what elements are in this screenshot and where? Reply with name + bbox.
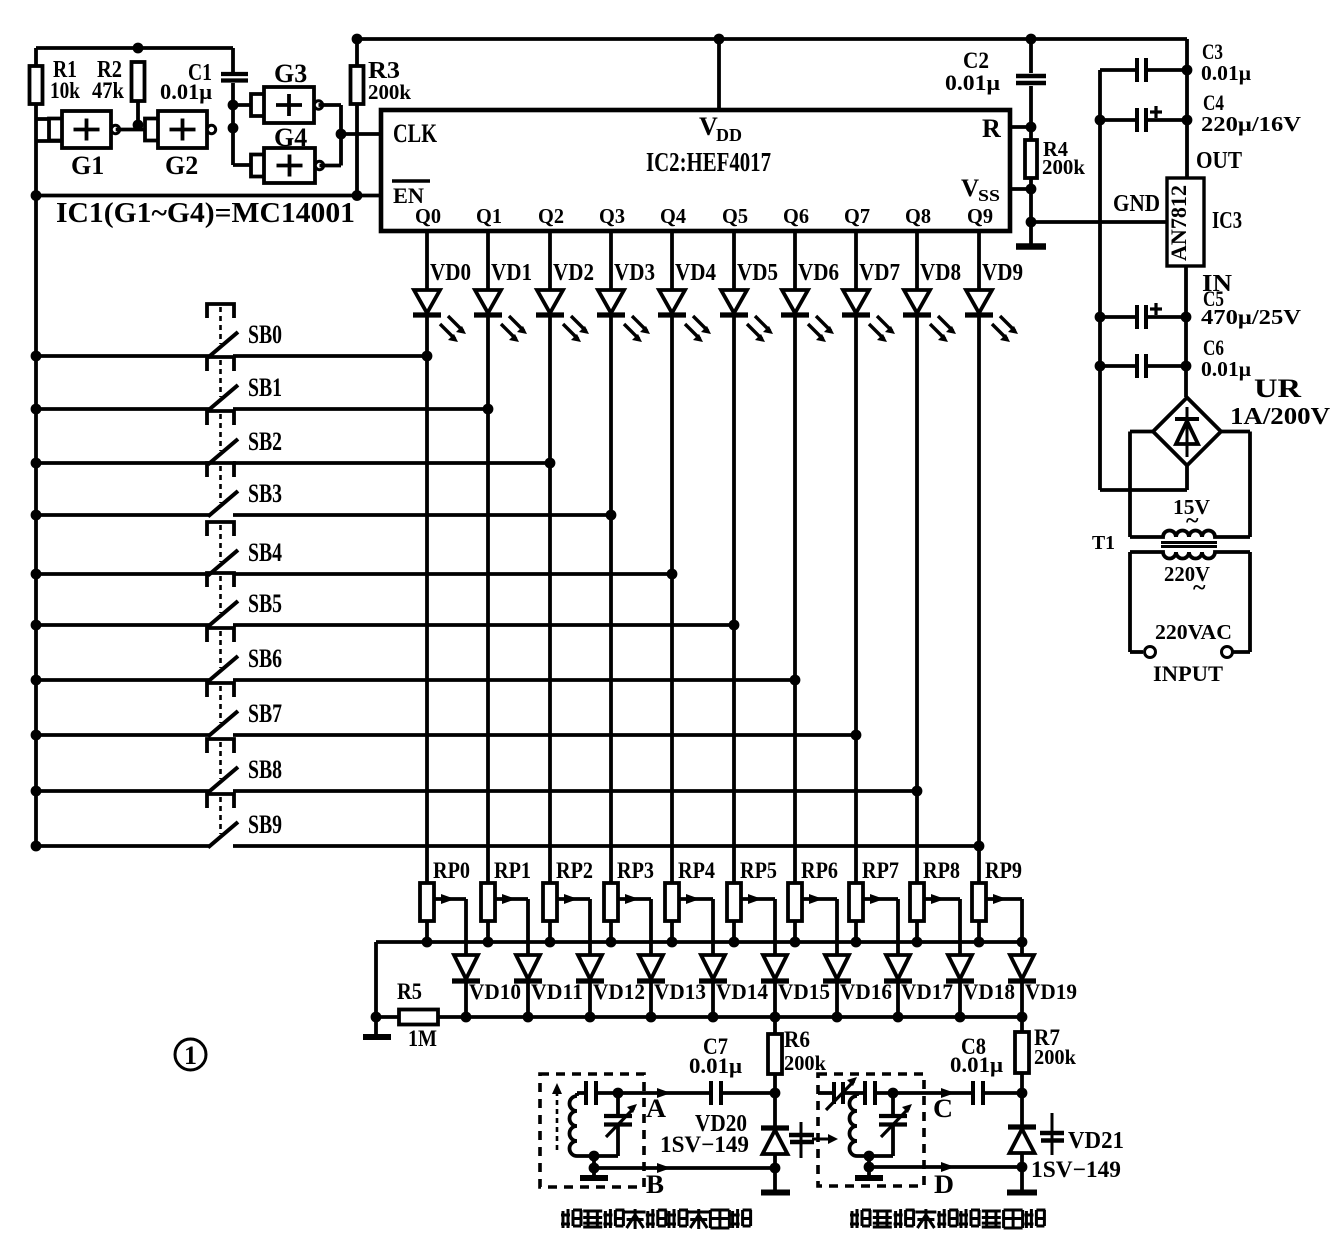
- wire tuning bus: [371, 1012, 1022, 1023]
- potentiometer RP5: [727, 858, 777, 955]
- capacitor (antenna series cap): [577, 1081, 644, 1105]
- svg-text:220VAC: 220VAC: [1155, 620, 1232, 644]
- svg-text:SB1: SB1: [248, 373, 282, 402]
- resistor R3: [351, 39, 412, 196]
- svg-text:0.01μ: 0.01μ: [1201, 61, 1251, 85]
- variable capacitor (osc main tuning): [818, 1077, 857, 1110]
- coil tap arrow: [812, 1134, 838, 1144]
- wire oscillator top rail: [36, 43, 233, 54]
- svg-text:VD10: VD10: [469, 979, 521, 1004]
- LED VD6: [781, 260, 839, 342]
- wire EN bus: [36, 190, 381, 201]
- wire right rail: [1182, 39, 1193, 178]
- capacitor (osc series cap): [857, 1081, 924, 1105]
- LED VD8: [903, 260, 961, 342]
- wire Q2 column: [545, 231, 556, 883]
- potentiometer RP4: [665, 858, 715, 955]
- svg-text:~: ~: [1186, 508, 1199, 534]
- ground (VD20): [761, 1168, 790, 1193]
- wire VSS pin: [1010, 184, 1036, 195]
- wire B net: [593, 1166, 775, 1170]
- ground (VSS): [1016, 243, 1046, 250]
- bridge rectifier UR: [1153, 398, 1221, 466]
- svg-text:SB4: SB4: [248, 538, 282, 567]
- svg-text:G4: G4: [274, 123, 307, 152]
- svg-text:200k: 200k: [784, 1051, 826, 1075]
- svg-text:1M: 1M: [408, 1026, 437, 1051]
- svg-text:UR: UR: [1254, 374, 1301, 403]
- LED VD3: [597, 260, 655, 342]
- wire Q6 column: [790, 231, 801, 883]
- svg-text:SB3: SB3: [248, 479, 282, 508]
- svg-text:1: 1: [184, 1041, 197, 1070]
- wire bridge AC right: [1221, 432, 1250, 538]
- svg-text:RP5: RP5: [740, 858, 777, 883]
- LED VD4: [658, 260, 716, 342]
- svg-text:Q9: Q9: [967, 204, 993, 228]
- antenna input circuit box: [540, 1074, 644, 1187]
- wire R pin: [1010, 122, 1036, 133]
- svg-text:200k: 200k: [1034, 1045, 1076, 1069]
- svg-text:Q3: Q3: [599, 204, 625, 228]
- wire left bus: [31, 48, 42, 846]
- svg-text:SB6: SB6: [248, 644, 282, 673]
- figure number 1: [175, 1039, 206, 1070]
- LED VD9: [965, 260, 1023, 342]
- transformer T1: [1092, 495, 1250, 601]
- switch SB9: [31, 794, 979, 851]
- diode VD19: [1008, 955, 1077, 1022]
- gate G2: [116, 111, 216, 180]
- potentiometer RP7: [849, 858, 899, 955]
- svg-text:IC2:HEF4017: IC2:HEF4017: [646, 147, 771, 177]
- label UR: [1230, 374, 1331, 430]
- resistor R6: [768, 1017, 826, 1093]
- potentiometer RP2: [543, 858, 593, 955]
- svg-text:0.01μ: 0.01μ: [950, 1052, 1004, 1077]
- LED VD1: [474, 260, 532, 342]
- local oscillator circuit box: [818, 1074, 924, 1186]
- trimmer capacitor (antenna): [604, 1093, 637, 1156]
- gate G4: [233, 123, 341, 183]
- node C: [933, 1088, 955, 1123]
- svg-text:R: R: [982, 114, 1001, 143]
- wire Q5 column: [729, 231, 740, 883]
- svg-text:10k: 10k: [50, 78, 80, 103]
- resistor R4: [1025, 127, 1085, 245]
- LED VD2: [536, 260, 594, 342]
- svg-text:Q1: Q1: [476, 204, 502, 228]
- diode VD10: [452, 955, 521, 1022]
- svg-text:Q7: Q7: [844, 204, 870, 228]
- gate G3: [233, 59, 341, 134]
- svg-text:A: A: [646, 1094, 666, 1123]
- svg-text:~: ~: [1193, 575, 1206, 601]
- capacitor C7: [644, 1034, 780, 1105]
- gate G1: [36, 111, 120, 180]
- resistor R1: [30, 57, 81, 104]
- svg-text:VD8: VD8: [920, 260, 961, 286]
- svg-text:220μ/16V: 220μ/16V: [1201, 112, 1301, 136]
- svg-text:Q2: Q2: [538, 204, 564, 228]
- potentiometer RP8: [910, 858, 960, 955]
- antenna coupling dashed arrow: [552, 1083, 562, 1150]
- wire ground bus (pot bottoms): [376, 937, 1027, 1017]
- capacitor C3: [1100, 39, 1251, 85]
- diode VD11: [514, 955, 583, 1022]
- LED VD0: [413, 260, 471, 342]
- svg-text:IC3: IC3: [1212, 208, 1242, 234]
- wire Q0 column: [422, 231, 433, 883]
- svg-text:RP4: RP4: [678, 858, 715, 883]
- svg-text:470μ/25V: 470μ/25V: [1201, 305, 1301, 329]
- svg-text:IC1(G1~G4)=MC14001: IC1(G1~G4)=MC14001: [56, 197, 355, 229]
- svg-text:Q4: Q4: [660, 204, 686, 228]
- regulator IC3 AN7812: [1113, 148, 1242, 297]
- diode VD13: [637, 955, 706, 1022]
- svg-text:VD15: VD15: [778, 979, 830, 1004]
- switch SB1: [31, 357, 488, 414]
- svg-text:Q8: Q8: [905, 204, 931, 228]
- svg-text:SB9: SB9: [248, 810, 282, 839]
- svg-text:V: V: [961, 175, 979, 202]
- LED VD5: [720, 260, 778, 342]
- switch SB7: [31, 683, 856, 740]
- wire Q8 column: [912, 231, 923, 883]
- node B: [646, 1163, 671, 1199]
- switch SB2: [31, 411, 550, 468]
- potentiometer RP0: [420, 858, 470, 955]
- svg-text:VD17: VD17: [901, 979, 953, 1004]
- svg-text:0.01μ: 0.01μ: [945, 70, 1001, 95]
- ground (VD21): [1007, 1167, 1037, 1193]
- svg-text:200k: 200k: [368, 80, 411, 104]
- svg-text:RP9: RP9: [985, 858, 1022, 883]
- svg-text:SB2: SB2: [248, 427, 282, 456]
- diode VD18: [946, 955, 1015, 1022]
- switch SB3: [31, 463, 611, 520]
- wire D net: [868, 1165, 1022, 1169]
- svg-text:1SV−149: 1SV−149: [1031, 1157, 1121, 1182]
- svg-text:CLK: CLK: [393, 119, 438, 148]
- svg-text:0.01μ: 0.01μ: [1201, 357, 1251, 381]
- svg-text:G1: G1: [71, 151, 104, 180]
- svg-text:200k: 200k: [1042, 155, 1085, 179]
- svg-text:VD7: VD7: [859, 260, 900, 286]
- wire osc tank bottom: [857, 1151, 893, 1173]
- capacitor C6: [1100, 335, 1251, 381]
- wire filter column: [1095, 70, 1106, 490]
- svg-text:VD0: VD0: [430, 260, 471, 286]
- svg-text:SS: SS: [978, 186, 1000, 205]
- switch SB0: [31, 304, 427, 361]
- svg-text:G3: G3: [274, 59, 307, 88]
- svg-text:RP8: RP8: [923, 858, 960, 883]
- svg-text:1A/200V: 1A/200V: [1230, 404, 1331, 430]
- caption: radio local oscillator circuit: [850, 1209, 1045, 1229]
- svg-text:D: D: [934, 1170, 954, 1199]
- wire CLK net: [336, 129, 381, 140]
- resistor R7: [1015, 1017, 1076, 1093]
- inductor L2 (osc coil): [850, 1093, 858, 1156]
- capacitor C5: [1100, 286, 1301, 329]
- svg-text:SB0: SB0: [248, 320, 282, 349]
- svg-text:RP6: RP6: [801, 858, 838, 883]
- svg-text:VD2: VD2: [553, 260, 594, 286]
- diode VD17: [884, 955, 953, 1022]
- varactor VD20: [660, 1093, 814, 1173]
- svg-text:SB8: SB8: [248, 755, 282, 784]
- svg-text:VD9: VD9: [982, 260, 1023, 286]
- switch SB6: [31, 628, 795, 685]
- potentiometer RP1: [481, 858, 531, 955]
- svg-text:VD14: VD14: [716, 979, 768, 1004]
- ground (osc box): [855, 1167, 883, 1178]
- svg-text:R6: R6: [784, 1027, 810, 1052]
- svg-text:B: B: [646, 1170, 664, 1199]
- svg-text:G2: G2: [165, 151, 198, 180]
- svg-text:VD13: VD13: [654, 979, 706, 1004]
- diode VD16: [823, 955, 892, 1022]
- svg-text:OUT: OUT: [1196, 148, 1242, 174]
- node D: [934, 1162, 955, 1199]
- svg-text:SB5: SB5: [248, 589, 282, 618]
- op-amp U1 IC2 HEF4017: [381, 110, 1010, 231]
- LED VD7: [842, 260, 900, 342]
- wire Q9 column: [974, 231, 985, 883]
- svg-text:Q0: Q0: [415, 204, 441, 228]
- svg-text:C: C: [933, 1094, 953, 1123]
- svg-text:VD19: VD19: [1025, 979, 1077, 1004]
- svg-text:Q6: Q6: [783, 204, 809, 228]
- svg-text:VD3: VD3: [614, 260, 655, 286]
- potentiometer RP6: [788, 858, 838, 955]
- svg-text:RP3: RP3: [617, 858, 654, 883]
- svg-text:RP0: RP0: [433, 858, 470, 883]
- potentiometer RP3: [604, 858, 654, 955]
- svg-text:0.01μ: 0.01μ: [689, 1053, 743, 1078]
- svg-text:VD5: VD5: [737, 260, 778, 286]
- svg-text:Q5: Q5: [722, 204, 748, 228]
- ground (antenna box): [580, 1168, 608, 1178]
- switch SB8: [31, 739, 917, 796]
- wire Q1 column: [483, 231, 494, 883]
- trimmer capacitor (osc): [879, 1093, 912, 1156]
- wire top rail VDD: [352, 34, 1187, 45]
- svg-text:VD18: VD18: [963, 979, 1015, 1004]
- svg-text:VD21: VD21: [1068, 1128, 1124, 1154]
- wire Q3 column: [606, 231, 617, 883]
- svg-text:1SV−149: 1SV−149: [660, 1132, 749, 1157]
- label IC1: [56, 197, 355, 229]
- capacitor C2: [945, 39, 1046, 127]
- wire GND net to IC3: [1026, 217, 1167, 228]
- svg-text:T1: T1: [1092, 532, 1115, 554]
- wire primary loop / AC input terminals: [1130, 552, 1250, 686]
- capacitor C1: [160, 48, 248, 165]
- resistor R5: [397, 979, 438, 1051]
- wire Q7 column: [851, 231, 862, 883]
- node A: [646, 1088, 671, 1123]
- diode VD14: [699, 955, 768, 1022]
- svg-text:VD4: VD4: [675, 260, 716, 286]
- svg-text:R5: R5: [397, 979, 422, 1004]
- svg-text:AN7812: AN7812: [1166, 185, 1191, 261]
- svg-text:RP7: RP7: [862, 858, 899, 883]
- wire VDD pin: [717, 39, 721, 110]
- wire bridge AC left: [1130, 432, 1153, 538]
- switch SB4: [31, 522, 672, 579]
- wire IN pin: [1181, 266, 1192, 397]
- diode VD12: [576, 955, 645, 1022]
- capacitor C4: [1100, 90, 1301, 136]
- svg-text:GND: GND: [1113, 191, 1160, 217]
- switch SB5: [31, 573, 734, 630]
- ground (R5): [363, 1017, 391, 1037]
- capacitor C8: [924, 1034, 1027, 1105]
- wire Q4 column: [667, 231, 678, 883]
- svg-text:RP1: RP1: [494, 858, 531, 883]
- inductor L1 (antenna coil): [570, 1093, 578, 1156]
- svg-text:0.01μ: 0.01μ: [160, 79, 213, 104]
- svg-text:VD11: VD11: [531, 979, 583, 1004]
- svg-text:INPUT: INPUT: [1153, 661, 1223, 686]
- svg-text:DD: DD: [716, 125, 742, 145]
- svg-text:SB7: SB7: [248, 699, 282, 728]
- svg-text:47k: 47k: [92, 78, 124, 103]
- svg-text:RP2: RP2: [556, 858, 593, 883]
- diode VD15: [761, 955, 830, 1022]
- potentiometer RP9: [972, 858, 1022, 955]
- svg-text:VD6: VD6: [798, 260, 839, 286]
- caption: radio antenna input circuit: [561, 1209, 752, 1229]
- wire bridge negative to filter column: [1100, 466, 1187, 491]
- varactor VD21: [1008, 1093, 1124, 1182]
- resistor R2: [92, 57, 145, 130]
- wire antenna tank bottom: [577, 1151, 618, 1174]
- svg-text:VD1: VD1: [491, 260, 532, 286]
